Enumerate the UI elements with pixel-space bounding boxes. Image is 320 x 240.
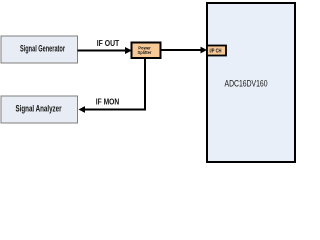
svg-text:Signal Analyzer: Signal Analyzer [16,103,62,114]
signal generator SG1 [1,36,78,63]
signal analyzer SA1 [1,96,78,123]
svg-text:IF MON: IF MON [96,97,120,106]
svg-text:ADC16DV160: ADC16DV160 [225,79,268,90]
svg-text:I/P CH: I/P CH [210,49,222,55]
svg-text:Splitter: Splitter [138,50,152,56]
ADC16DV160 device U2 [207,3,295,162]
wire: splitter output to ADC input [161,47,208,54]
svg-text:IF OUT: IF OUT [97,39,120,48]
power splitter U1 [132,43,161,59]
wire IF MON: splitter down and left to analyzer [79,58,146,113]
I/P CH input pin block [207,46,226,56]
wire IF OUT: generator to splitter [78,47,133,54]
svg-text:Signal Generator: Signal Generator [20,44,65,55]
